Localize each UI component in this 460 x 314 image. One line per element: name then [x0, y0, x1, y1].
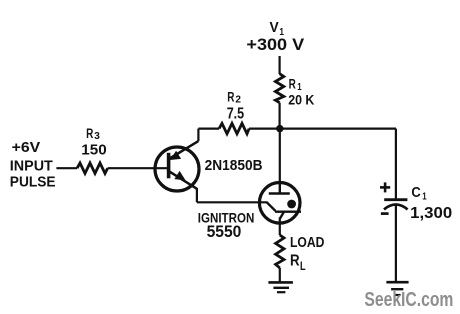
svg-text:V: V	[270, 20, 280, 36]
svg-text:3: 3	[94, 130, 100, 142]
wire RL to ground	[279, 268, 281, 282]
svg-text:SeekIC.com: SeekIC.com	[364, 289, 453, 311]
ground under RL	[268, 282, 293, 292]
label IGNITRON 5550	[198, 209, 255, 241]
wire input to R3	[56, 167, 77, 169]
wire emitter to ignitron	[196, 188, 198, 202]
wire R1 to junction	[279, 103, 281, 130]
wire V1 feed	[279, 56, 281, 74]
svg-text:INPUT: INPUT	[10, 158, 53, 174]
label R1	[288, 76, 314, 107]
svg-text:1: 1	[422, 190, 427, 202]
label LOAD RL	[290, 235, 324, 273]
ignitron V2	[259, 183, 301, 236]
svg-text:150: 150	[81, 142, 106, 158]
+6V INPUT PULSE label	[10, 140, 56, 190]
resistor R3	[77, 163, 108, 173]
svg-text:+6V: +6V	[12, 140, 41, 156]
capacitor C1	[384, 200, 408, 282]
wire junction to ignitron anode	[279, 129, 281, 183]
svg-text:2N1850B: 2N1850B	[205, 158, 263, 174]
svg-text:20 K: 20 K	[288, 91, 314, 107]
transistor Q1 2N1850B	[155, 141, 199, 191]
svg-text:R: R	[289, 76, 296, 91]
svg-text:1,300: 1,300	[410, 205, 452, 222]
label R3	[81, 126, 106, 158]
wire top right down to capacitor	[395, 129, 397, 200]
svg-text:L: L	[300, 261, 306, 273]
resistor R2	[219, 123, 249, 133]
node V1 label	[270, 20, 285, 38]
svg-text:R: R	[290, 253, 300, 270]
svg-text:7.5: 7.5	[227, 105, 245, 122]
svg-text:R: R	[227, 90, 234, 105]
minus sign of C1	[381, 212, 389, 215]
node junction dot	[276, 125, 283, 132]
label R2	[227, 90, 245, 123]
plus sign of C1	[380, 182, 390, 192]
svg-text:PULSE: PULSE	[10, 175, 56, 191]
wire main horizontal line	[198, 128, 219, 130]
wire collector elbow	[197, 129, 199, 142]
resistor R1	[275, 74, 283, 103]
svg-text:2: 2	[235, 94, 241, 106]
svg-text:+300 V: +300 V	[246, 35, 304, 54]
svg-text:C: C	[411, 185, 421, 201]
svg-text:LOAD: LOAD	[290, 235, 324, 251]
label C1 1,300	[410, 185, 452, 222]
resistor RL (load)	[276, 235, 284, 268]
ground under C1	[386, 282, 408, 295]
svg-text:5550: 5550	[207, 223, 242, 241]
wire R3 to base	[108, 167, 167, 169]
svg-text:R: R	[86, 126, 93, 141]
